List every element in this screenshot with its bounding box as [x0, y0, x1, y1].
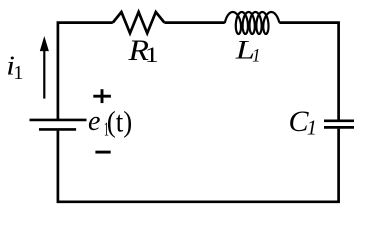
wire resistor to inductor — [164, 21, 224, 24]
svg-text:e: e — [88, 106, 100, 137]
svg-text:1: 1 — [307, 115, 317, 140]
current arrow i1 head — [40, 36, 49, 51]
wire top-left: left branch upper + top wire to resistor — [58, 23, 113, 120]
inductor L1 — [225, 12, 279, 34]
capacitor C1 top plate — [324, 119, 354, 122]
svg-text:(t): (t) — [107, 106, 132, 139]
battery e1 bottom plate (short, -) — [39, 128, 76, 131]
plus sign — [93, 95, 111, 98]
resistor R1 — [113, 12, 165, 33]
battery e1 top plate (long, +) — [30, 119, 87, 122]
svg-text:1: 1 — [145, 43, 159, 67]
wire capacitor to bottom-right corner, bottom wire, up to battery — [58, 129, 339, 202]
svg-text:1: 1 — [252, 45, 261, 66]
capacitor C1 bottom plate — [324, 126, 354, 129]
minus sign — [95, 151, 110, 154]
wire inductor to top-right corner down to capacitor — [279, 23, 338, 120]
svg-text:1: 1 — [13, 62, 23, 84]
current arrow i1 shaft — [43, 50, 45, 99]
